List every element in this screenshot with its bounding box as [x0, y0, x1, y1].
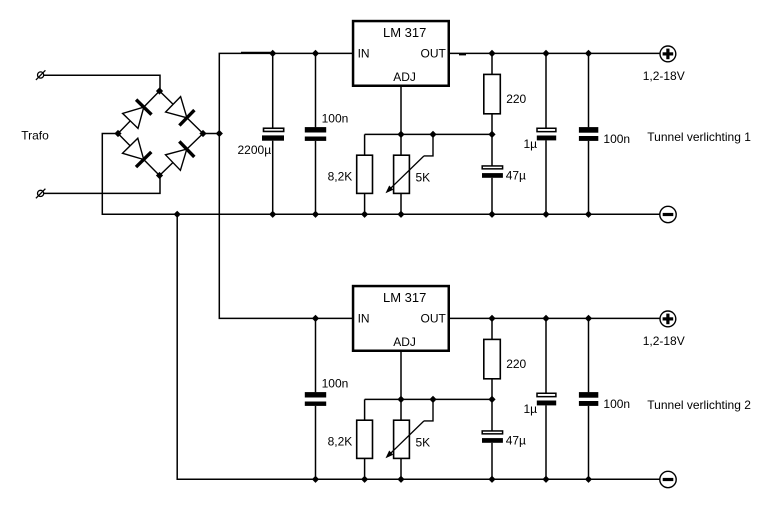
wire: 5K pot P2 bottom lead	[400, 458, 402, 479]
wire: 8,2K R2a bottom lead	[364, 458, 366, 479]
node: input rail junction at 100n C2a	[312, 315, 319, 322]
wire: ground drop to circuit 2 rail	[177, 214, 660, 479]
node: OUT junction 1u C2c	[542, 315, 549, 322]
node: bridge top junction	[156, 87, 163, 94]
capacitor C1d 100n	[579, 127, 598, 141]
node: 220/47u/ADJ junction 2	[488, 396, 495, 403]
input terminal J2 (lower AC)	[36, 189, 46, 199]
wire: 100n C2d bottom lead	[588, 406, 590, 479]
svg-text:1,2-18V: 1,2-18V	[643, 69, 685, 83]
svg-text:Tunnel verlichting 2: Tunnel verlichting 2	[647, 398, 751, 412]
output terminal plus 1	[660, 46, 676, 62]
svg-text:100n: 100n	[603, 132, 630, 146]
svg-text:5K: 5K	[416, 436, 431, 450]
wire: 8,2K R1a bottom lead	[364, 193, 366, 214]
wire: wiper connection 2	[424, 399, 433, 421]
node: ground junction 8,2K 1	[361, 211, 368, 218]
wire: overlap segment on OUT rail 1	[459, 53, 466, 55]
svg-text:47µ: 47µ	[506, 433, 526, 447]
node: bridge right junction	[199, 130, 206, 137]
node: input rail junction at 100n C1a	[312, 50, 319, 57]
node: ADJ pin junction 1	[397, 131, 404, 138]
node: ground rail junction 2200u	[269, 211, 276, 218]
wire: 100n C2a top lead	[315, 318, 317, 392]
node: bridge left junction	[114, 130, 121, 137]
wire: bridge minus output to ground rail 1	[102, 134, 660, 215]
svg-text:1µ: 1µ	[524, 137, 538, 151]
wire: 47u C1b top lead	[491, 134, 493, 165]
node: bridge bottom junction	[156, 172, 163, 179]
capacitor C1 2200u electrolytic	[262, 128, 284, 140]
node: wiper junction 2	[429, 396, 436, 403]
resistor R1a 8,2K	[357, 155, 373, 193]
node: ground junction 1u 2	[542, 476, 549, 483]
node: 220/47u/ADJ junction 1	[488, 131, 495, 138]
node: wiper junction 1	[429, 131, 436, 138]
svg-text:IN: IN	[358, 46, 370, 60]
node: ground junction 100n 2	[585, 476, 592, 483]
regulator U1 LM 317	[353, 21, 449, 86]
wire: ADJ horizontal net 1	[365, 133, 492, 135]
wire: 100n C1a top lead	[315, 53, 317, 127]
output terminal plus 2	[660, 311, 676, 327]
node: ground junction 100n 1	[585, 211, 592, 218]
capacitor C2a 100n	[305, 392, 326, 406]
wire: 2200u C1 bottom lead	[272, 141, 274, 215]
wire: V+ up to regulator 1 input rail	[219, 53, 352, 133]
node: OUT junction 220 R1b	[488, 50, 495, 57]
svg-text:IN: IN	[358, 311, 370, 325]
capacitor C1b 47u electrolytic	[482, 166, 503, 178]
wire: 220 R1b top lead	[491, 53, 493, 74]
wire: 8,2K R1a top lead	[364, 134, 366, 155]
node: ADJ pin junction 2	[397, 396, 404, 403]
capacitor C2d 100n	[579, 392, 598, 406]
wire: 1u C1c bottom lead	[545, 140, 547, 214]
wire: 1u C2c top lead	[545, 318, 547, 393]
potentiometer P2 wiper arrow	[386, 421, 425, 458]
node: V+ branch junction	[216, 130, 223, 137]
svg-text:1µ: 1µ	[524, 402, 538, 416]
diode D2 (top to right)	[166, 97, 195, 126]
svg-text:220: 220	[506, 357, 526, 371]
wire: U1 OUT rail	[450, 52, 660, 54]
input terminal J1 (upper AC)	[36, 70, 46, 80]
node: OUT junction 100n C2d	[585, 315, 592, 322]
diode D1 (left to top)	[123, 100, 152, 129]
node: ground junction 47u 1	[488, 211, 495, 218]
wire: 47u C2b bottom lead	[491, 443, 493, 480]
svg-text:OUT: OUT	[421, 46, 447, 60]
svg-text:LM 317: LM 317	[383, 290, 426, 305]
capacitor C2b 47u electrolytic	[482, 431, 503, 443]
wire: 220 R2b top lead	[491, 318, 493, 339]
wire: 2200u C1 top lead	[272, 53, 274, 128]
wire: 1u C1c top lead	[545, 53, 547, 128]
svg-text:8,2K: 8,2K	[328, 170, 353, 184]
svg-text:5K: 5K	[416, 171, 431, 185]
resistor R1b 220	[484, 74, 501, 113]
svg-text:ADJ: ADJ	[393, 335, 416, 349]
node: ground rail junction 100n C2a	[312, 476, 319, 483]
node: ground junction 5K 2	[397, 476, 404, 483]
wire: 100n C1a bottom lead	[315, 141, 317, 214]
svg-text:100n: 100n	[322, 112, 349, 126]
node: ground junction 1u 1	[542, 211, 549, 218]
wire: 100n C1d top lead	[588, 53, 590, 127]
wire: 47u C2b top lead	[491, 399, 493, 430]
wire: 5K pot P1 top lead	[400, 134, 402, 155]
svg-text:100n: 100n	[322, 377, 349, 391]
wire: ADJ horizontal net 2	[365, 398, 492, 400]
wire: V+ down to regulator 2 input	[219, 134, 352, 319]
wire: U2 OUT rail	[450, 317, 660, 319]
capacitor C2c 1u electrolytic	[537, 393, 556, 405]
output terminal minus 1	[660, 206, 676, 222]
node: input rail junction 2200u	[269, 50, 276, 57]
svg-text:ADJ: ADJ	[393, 70, 416, 84]
potentiometer P2 5K body	[394, 420, 410, 458]
svg-text:Trafo: Trafo	[21, 128, 49, 142]
output terminal minus 2	[660, 471, 676, 487]
wire: 5K pot P1 bottom lead	[400, 193, 402, 214]
wire: 220 bottom to ADJ node 1	[491, 114, 493, 135]
wire: bridge diamond sides	[118, 91, 203, 176]
node: ground rail junction 100n C1a	[312, 211, 319, 218]
node: ground junction 8,2K 2	[361, 476, 368, 483]
svg-text:2200µ: 2200µ	[238, 143, 272, 157]
svg-text:220: 220	[506, 92, 526, 106]
capacitor C1c 1u electrolytic	[537, 128, 556, 140]
wire: 100n C1d bottom lead	[588, 141, 590, 214]
node: ground rail 1 branch to circuit 2	[174, 211, 181, 218]
wire: 5K pot P2 top lead	[400, 399, 402, 420]
wire: lower AC terminal to bridge bottom	[44, 176, 160, 194]
resistor R2a 8,2K	[357, 420, 373, 458]
wire: 47u C1b bottom lead	[491, 178, 493, 215]
node: OUT junction 100n C1d	[585, 50, 592, 57]
wire: 220 bottom to ADJ node 2	[491, 379, 493, 400]
potentiometer P1 5K body	[394, 155, 410, 193]
svg-text:1,2-18V: 1,2-18V	[643, 334, 685, 348]
potentiometer P1 wiper arrow	[386, 156, 425, 193]
wire: 1u C2c bottom lead	[545, 405, 547, 479]
node: ground junction 47u 2	[488, 476, 495, 483]
diode D4 (bottom to right)	[166, 141, 195, 170]
wire: 8,2K R2a top lead	[364, 399, 366, 420]
wire: U1 ADJ pin down	[400, 87, 402, 134]
wire: bridge plus output	[203, 133, 219, 135]
svg-text:100n: 100n	[603, 397, 630, 411]
wire: U2 ADJ pin down	[400, 352, 402, 399]
node: OUT junction 220 R2b	[488, 315, 495, 322]
svg-text:Tunnel verlichting 1: Tunnel verlichting 1	[647, 130, 751, 144]
node: OUT junction 1u C1c	[542, 50, 549, 57]
wire: overlap segment on input rail	[241, 52, 271, 54]
svg-text:OUT: OUT	[421, 311, 447, 325]
wire: wiper connection 1	[424, 134, 433, 156]
svg-text:47µ: 47µ	[506, 168, 526, 182]
diode D3 (left to bottom)	[123, 138, 152, 167]
svg-text:8,2K: 8,2K	[328, 435, 353, 449]
svg-text:LM 317: LM 317	[383, 25, 426, 40]
resistor R2b 220	[484, 339, 501, 378]
capacitor C1a 100n	[305, 127, 326, 141]
node: ground junction 5K 1	[397, 211, 404, 218]
wire: 100n C2d top lead	[588, 318, 590, 392]
regulator U2 LM 317	[353, 286, 449, 351]
wire: 100n C2a bottom lead	[315, 406, 317, 479]
wire: upper AC terminal to bridge top	[44, 75, 160, 91]
